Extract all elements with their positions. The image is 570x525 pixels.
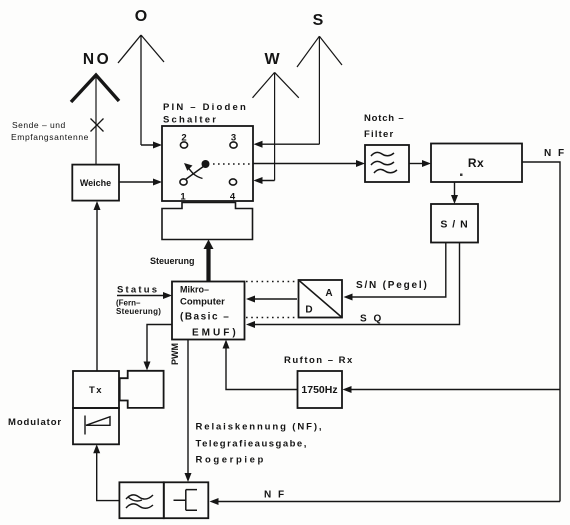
Tx box <box>73 371 119 408</box>
svg-text:D: D <box>305 305 312 316</box>
svg-text:Modulator: Modulator <box>8 417 62 428</box>
S/N box <box>431 204 478 243</box>
wire NF bus to 1750Hz box <box>348 389 560 391</box>
wire Weiche to switch port 1 <box>119 181 158 183</box>
svg-text:Weiche: Weiche <box>80 178 111 188</box>
svg-text:Computer: Computer <box>180 297 225 308</box>
svg-text:NO: NO <box>83 51 111 68</box>
NF wire from Rx down right side <box>522 162 560 502</box>
svg-text:S / N: S / N <box>440 219 468 231</box>
antenna S <box>297 36 342 144</box>
port 3 circle <box>230 142 237 148</box>
svg-text:S: S <box>313 12 324 29</box>
svg-text:Empfangsantenne: Empfangsantenne <box>11 132 89 142</box>
wire W to switch port 4 <box>258 180 275 182</box>
switch driver box <box>162 203 253 240</box>
svg-text:S Q: S Q <box>360 314 383 325</box>
svg-text:Filter: Filter <box>364 129 394 140</box>
port 4 circle <box>229 179 236 185</box>
antenna NO (bold) <box>71 75 119 102</box>
svg-text:4: 4 <box>230 192 236 203</box>
antenna W <box>253 72 299 180</box>
wire Rx to S/N <box>454 182 456 198</box>
wiper arm to port 1 <box>186 166 205 180</box>
wire S/N to computer (SQ) <box>250 243 460 325</box>
wire 1750Hz to computer <box>226 347 298 390</box>
filter wave symbol <box>126 495 153 508</box>
svg-text:Rufton – Rx: Rufton – Rx <box>284 355 354 366</box>
svg-text:Notch –: Notch – <box>364 113 404 124</box>
svg-text:Steuerung): Steuerung) <box>116 307 161 316</box>
wire A/D to computer <box>250 298 297 300</box>
notch filter box <box>365 145 409 182</box>
svg-text:(Basic –: (Basic – <box>180 312 230 323</box>
microcomputer box U1 <box>172 282 245 340</box>
tone decoder 1750Hz box <box>298 371 343 408</box>
svg-text:Mikro–: Mikro– <box>180 285 209 295</box>
wire filter to modulator <box>97 450 120 501</box>
svg-text:S/N (Pegel): S/N (Pegel) <box>356 280 429 291</box>
dotted line computer to A/D bottom <box>246 317 297 319</box>
wiper pivot dot <box>202 160 210 168</box>
port 1 circle <box>180 179 187 185</box>
svg-text:Tx: Tx <box>89 385 103 396</box>
PWM wire computer to keyer <box>187 340 189 476</box>
wire switch to notch filter <box>253 163 359 165</box>
NF return wire <box>215 501 560 503</box>
status wire into computer <box>117 295 166 297</box>
dotted line wiper to box edge <box>213 163 251 165</box>
svg-text:Telegrafieausgabe,: Telegrafieausgabe, <box>196 439 308 450</box>
dotted line computer to A/D top <box>246 281 297 283</box>
PIN diode switch box <box>162 126 253 201</box>
wire notch filter to Rx <box>409 163 425 165</box>
keyer symbol <box>174 490 198 511</box>
wire computer to Tx aux box <box>147 325 172 363</box>
svg-text:A: A <box>325 288 332 299</box>
svg-text:Relaiskennung (NF),: Relaiskennung (NF), <box>196 422 324 433</box>
svg-text:N F: N F <box>264 490 286 501</box>
svg-text:1: 1 <box>180 192 186 203</box>
A/D converter U-AD <box>299 280 343 318</box>
wire NO antenna to Weiche <box>95 77 97 164</box>
port 2 circle <box>180 142 187 148</box>
wire Tx to Weiche <box>96 207 98 371</box>
Tx aux box (PA) <box>120 371 164 408</box>
svg-text:Status: Status <box>117 285 159 296</box>
svg-text:EMUF): EMUF) <box>192 328 239 339</box>
svg-text:Sende – und: Sende – und <box>12 120 66 130</box>
thick control line computer to switch driver <box>206 248 210 281</box>
NF filter box bottom <box>119 482 163 518</box>
Weiche box <box>72 165 119 201</box>
svg-text:Rogerpiep: Rogerpiep <box>196 455 266 466</box>
wire S/N to A/D (S/N Pegel) <box>349 243 446 298</box>
svg-text:Steuerung: Steuerung <box>150 256 195 266</box>
rotation arrow <box>188 167 203 179</box>
modulator ramp symbol <box>85 416 110 435</box>
modulator box <box>73 408 119 444</box>
keyer box bottom <box>164 482 209 518</box>
antenna O <box>118 35 164 145</box>
speck <box>460 174 463 177</box>
svg-text:Schalter: Schalter <box>163 115 218 126</box>
antenna feed X mark <box>91 119 104 132</box>
svg-text:1750Hz: 1750Hz <box>301 384 337 396</box>
notch filter wave symbol <box>371 152 397 173</box>
svg-text:PWM: PWM <box>170 343 180 365</box>
Rx box <box>431 144 522 183</box>
wire S to switch port 3 <box>258 143 319 145</box>
svg-text:N F: N F <box>544 148 566 159</box>
svg-text:W: W <box>264 51 280 68</box>
svg-text:Rx: Rx <box>468 156 484 170</box>
svg-text:O: O <box>135 8 147 25</box>
svg-text:PIN – Dioden: PIN – Dioden <box>163 102 248 113</box>
wire O to switch port 2 <box>141 144 158 146</box>
